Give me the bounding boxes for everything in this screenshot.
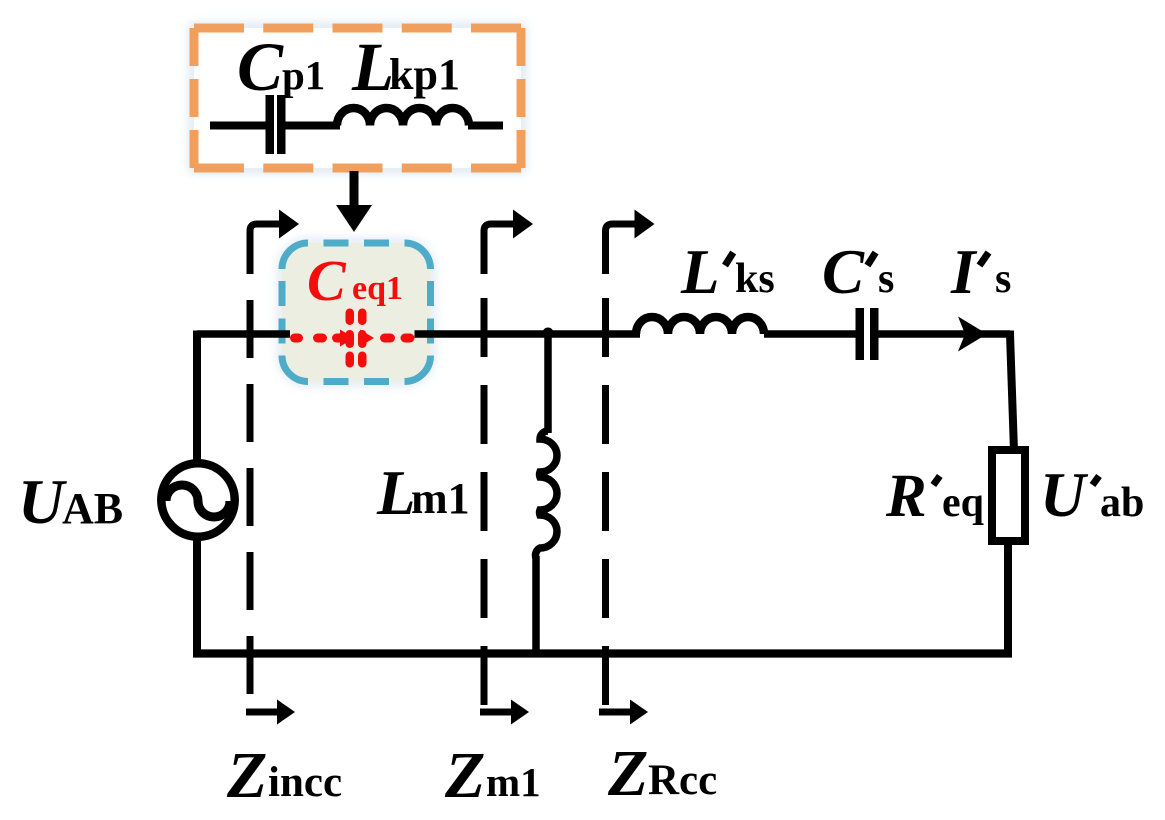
svg-text:L: L bbox=[351, 29, 394, 105]
svg-text:Z: Z bbox=[444, 739, 485, 812]
wire Cp1 to Lkp1 bbox=[285, 122, 340, 130]
wire bottom rail bbox=[193, 649, 1012, 657]
glow behind orange compensation box bbox=[194, 28, 521, 168]
wire resistor to bottom rail bbox=[1004, 541, 1012, 658]
wire top rail middle (Ceq1 to Lks) bbox=[415, 330, 641, 338]
svg-text:eq1: eq1 bbox=[352, 270, 403, 307]
svg-text:s: s bbox=[995, 256, 1011, 302]
svg-text:m1: m1 bbox=[411, 474, 470, 523]
wire right side down to resistor bbox=[1010, 331, 1014, 452]
wire Lm1 branch lower bbox=[532, 556, 540, 654]
svg-text:L: L bbox=[680, 237, 719, 307]
arrow from compensation box into Ceq1 bbox=[336, 171, 372, 232]
svg-text:R: R bbox=[885, 463, 927, 530]
svg-text:U: U bbox=[1040, 460, 1089, 530]
wire Lm1 branch upper bbox=[544, 334, 552, 433]
current arrow I's bbox=[958, 317, 987, 352]
svg-text:C: C bbox=[822, 237, 865, 307]
svg-text:p1: p1 bbox=[282, 52, 325, 98]
glow behind Ceq1 box bbox=[282, 243, 431, 382]
resistor R'eq bbox=[992, 450, 1025, 541]
wire Lks to C's bbox=[764, 330, 857, 338]
orange dashed compensation box bbox=[194, 28, 521, 168]
arrow ZRcc bbox=[599, 700, 648, 725]
capacitor Ceq1 red dashed symbol bbox=[290, 309, 415, 368]
svg-text:Z: Z bbox=[226, 739, 267, 812]
svg-text:ab: ab bbox=[1100, 480, 1144, 526]
svg-text:U: U bbox=[18, 466, 67, 537]
capacitor Cp1 bbox=[266, 95, 286, 154]
dashed measurement line ZRcc bbox=[606, 210, 655, 706]
svg-text:AB: AB bbox=[62, 484, 123, 533]
svg-text:kp1: kp1 bbox=[389, 50, 460, 99]
wire left side lower bbox=[193, 539, 201, 658]
dashed measurement line Zincc bbox=[250, 210, 299, 695]
svg-text:m1: m1 bbox=[486, 759, 541, 805]
wire Lkp1 right lead bbox=[468, 122, 503, 130]
svg-text:L: L bbox=[376, 458, 415, 528]
svg-text:Z: Z bbox=[607, 737, 648, 810]
node at Lm1 junction bbox=[543, 328, 554, 339]
AC source UAB bbox=[161, 463, 234, 536]
inductor Lkp1 bbox=[337, 108, 469, 126]
svg-text:s: s bbox=[878, 256, 894, 302]
wire C's to corner bbox=[878, 330, 1010, 338]
svg-text:incc: incc bbox=[268, 759, 342, 806]
cyan dashed equivalent box Ceq1 bbox=[282, 243, 431, 382]
dashed measurement line Zm1 bbox=[484, 210, 533, 706]
inductor Lm1 bbox=[535, 431, 557, 558]
svg-text:ks: ks bbox=[735, 256, 775, 302]
inductor L'ks bbox=[636, 317, 764, 334]
arrow Zincc bbox=[246, 700, 295, 725]
svg-text:I: I bbox=[950, 237, 978, 307]
wire left side upper bbox=[193, 331, 201, 462]
wire top rail left (source to Ceq1) bbox=[197, 330, 290, 338]
capacitor C's bbox=[856, 308, 879, 360]
svg-text:C: C bbox=[237, 29, 284, 105]
wire Cp1 left lead bbox=[210, 122, 266, 130]
svg-text:eq: eq bbox=[942, 480, 984, 526]
svg-text:C: C bbox=[307, 248, 347, 313]
arrow Zm1 bbox=[480, 700, 529, 725]
svg-text:Rcc: Rcc bbox=[648, 757, 717, 804]
